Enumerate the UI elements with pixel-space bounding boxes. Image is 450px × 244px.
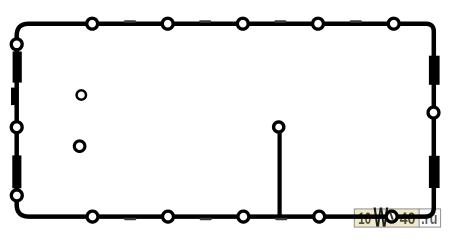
- thick segment left 2 (offset outward): [11, 88, 18, 106]
- thick segment left 3: [12, 155, 21, 188]
- bolt hole top 5: [388, 18, 399, 29]
- thick segment left 1: [13, 52, 22, 83]
- tick mark top edge 3: [274, 20, 286, 23]
- tick mark bottom edge 3: [275, 218, 287, 221]
- tick mark top edge 1: [124, 20, 136, 23]
- tick mark bottom edge 1: [124, 218, 136, 221]
- bolt hole right middle: [428, 107, 439, 118]
- bolt hole bottom 5: [386, 211, 397, 222]
- free hole lower left: [74, 141, 85, 152]
- bolt hole left top corner: [11, 39, 22, 50]
- bolt hole left bottom: [11, 190, 22, 201]
- tick mark top edge 4: [350, 20, 362, 23]
- bolt hole bottom 2: [163, 211, 174, 222]
- bolt hole top 3: [237, 18, 248, 29]
- breather tube stem: [278, 127, 282, 217]
- bolt hole top 1: [87, 18, 98, 29]
- tick mark bottom edge 2: [200, 218, 212, 221]
- thick segment right 2: [429, 156, 440, 188]
- bolt hole bottom 1: [87, 211, 98, 222]
- bolt hole bottom 4: [314, 211, 325, 222]
- svg-text:40: 40: [400, 210, 416, 228]
- tick mark top edge 2: [199, 20, 211, 23]
- watermark box .ru: [419, 209, 440, 227]
- breather tube ring: [274, 122, 284, 132]
- bolt hole top 2: [162, 18, 173, 29]
- svg-text:10: 10: [358, 210, 371, 228]
- bolt hole bottom 3: [238, 211, 249, 222]
- watermark stroke inside bolt hole bottom 5: [390, 213, 393, 220]
- bolt hole top 4: [313, 18, 324, 29]
- free hole upper left: [77, 90, 86, 99]
- gasket outline: [17, 24, 434, 217]
- thick segment right 1: [429, 56, 440, 85]
- bolt hole left middle: [11, 122, 22, 133]
- watermark box 10W40: [354, 209, 419, 227]
